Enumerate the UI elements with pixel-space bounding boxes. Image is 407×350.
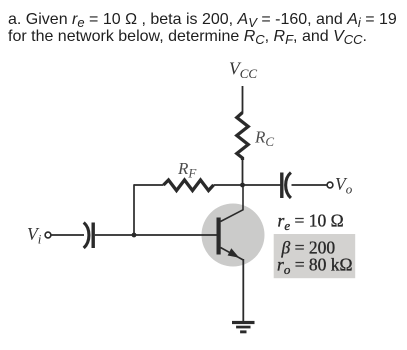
svg-text:RF: RF <box>177 159 197 181</box>
transistor Q1 emitter arrow <box>228 248 240 257</box>
resistor RF <box>164 180 214 191</box>
ground bar 1 <box>232 321 255 324</box>
transistor Q1 base bar <box>217 218 221 255</box>
svg-text:Vi: Vi <box>27 224 42 247</box>
svg-text:RC: RC <box>254 128 274 150</box>
transistor Q1 emitter lead <box>221 248 244 261</box>
node collector junction <box>240 183 245 188</box>
resistor RC <box>237 113 248 161</box>
capacitor C2 straight plate <box>280 173 283 199</box>
ground bar 2 <box>236 326 250 329</box>
svg-text:Vo: Vo <box>335 174 353 197</box>
wire capacitor to base <box>95 234 217 236</box>
terminal Vo <box>327 182 333 188</box>
parameter box <box>274 234 356 278</box>
capacitor C1 straight plate <box>91 223 94 249</box>
transistor Q1 collector lead <box>221 186 244 222</box>
wire RF to node <box>214 184 243 186</box>
wire capacitor to Vo terminal <box>292 184 328 186</box>
wire feedback top horizontal <box>134 184 164 186</box>
wire node to output capacitor <box>243 184 281 186</box>
wire Vi to capacitor <box>51 234 84 236</box>
node base junction <box>132 233 137 238</box>
ground bar 3 <box>240 330 246 333</box>
transistor Q1 shaded circle <box>202 204 265 267</box>
wire feedback left vertical <box>133 184 135 235</box>
capacitor C2 curved plate <box>286 173 291 199</box>
wire emitter to ground <box>242 259 244 322</box>
svg-text:re = 10 Ω: re = 10 Ω <box>278 211 344 234</box>
wire RC to collector node <box>242 160 244 185</box>
svg-text:VCC: VCC <box>229 59 257 82</box>
capacitor C1 curved plate <box>84 223 89 249</box>
terminal Vi <box>45 232 51 238</box>
wire VCC to RC <box>242 86 244 113</box>
